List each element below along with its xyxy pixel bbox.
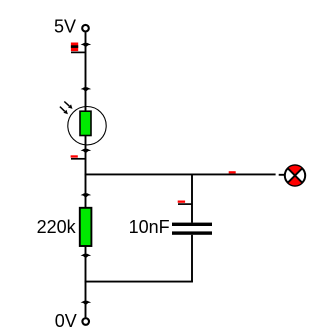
lamp lead stub [279,174,285,176]
label 220k [37,217,77,237]
current arrow below resistor [81,254,92,258]
current arrow above 0V [81,301,92,305]
wire bottom horizontal (resistor to capacitor) [85,281,193,283]
current arrow on 5V wire [81,43,92,47]
LDR body [80,111,91,135]
capacitor branch upper wire [191,174,193,223]
label 0V [55,311,77,331]
wire LDR to resistor [85,136,87,209]
light arrow 2 [60,107,68,115]
current arrow above resistor [81,193,92,197]
wire 5V terminal to LDR [85,32,87,112]
wire junction to lamp (horizontal) [85,173,276,175]
terminal 5V [82,25,89,32]
svg-text:5V: 5V [54,16,76,36]
label 10nF [129,217,170,237]
current arrow below LDR [81,149,92,153]
probe marker below LDR (red dash with stub) [71,155,86,159]
LDR (light dependent resistor) [60,102,106,145]
probe marker near 5V (red block with black band and stub) [71,43,86,53]
LDR circle envelope [68,107,106,145]
capacitor 10nF [172,223,212,235]
probe marker near capacitor (red dash with stub) [178,201,193,205]
svg-text:220k: 220k [37,217,77,237]
red dash marker on lamp wire [229,171,236,173]
capacitor branch lower wire [191,235,193,282]
svg-text:0V: 0V [55,311,77,331]
lamp indicator [285,165,305,185]
wire resistor to 0V [85,246,87,317]
resistor 220k [80,208,92,246]
label 5V [54,16,76,36]
current arrow above LDR [81,87,92,91]
terminal 0V [82,318,89,325]
light arrow 1 [64,102,72,109]
svg-text:10nF: 10nF [129,217,170,237]
